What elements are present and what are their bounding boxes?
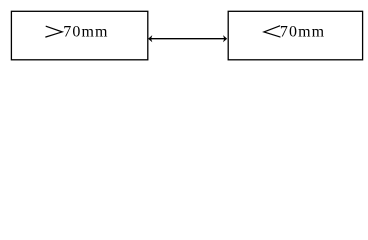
label: full-width "<" chevron in box B2 xyxy=(264,26,280,37)
wire: double-headed connector shaft between B1 and B2 xyxy=(151,38,225,40)
svg-text:70mm: 70mm xyxy=(63,24,108,41)
box B2: right rectangle "<70mm" xyxy=(228,11,362,60)
arrowhead: right (pointing at box B2) xyxy=(223,35,227,42)
arrowhead: left (pointing at box B1) xyxy=(148,35,152,42)
box B1: left rectangle ">70mm" xyxy=(11,11,147,60)
svg-text:70mm: 70mm xyxy=(280,24,325,41)
label: full-width ">" chevron in box B1 xyxy=(46,26,62,37)
